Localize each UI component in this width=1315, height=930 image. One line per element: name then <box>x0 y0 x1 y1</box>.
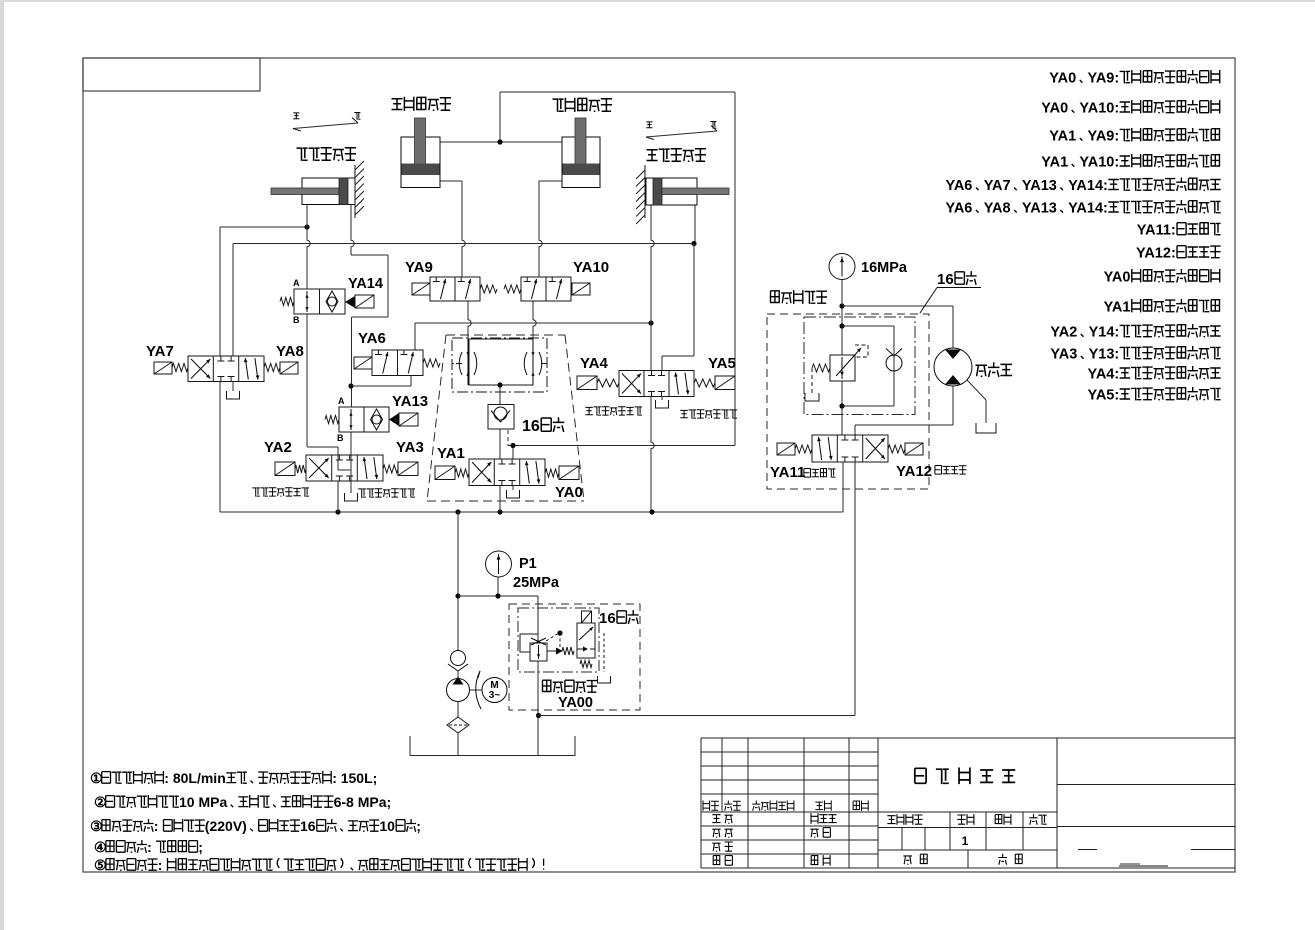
valve YA10 <box>504 277 590 301</box>
wire relief line <box>537 596 539 755</box>
annotation list <box>946 70 1221 404</box>
wire right-moving-cylinder right port <box>351 205 388 408</box>
label YA8 <box>276 343 304 360</box>
wire YA14 to YA2 valve <box>307 314 338 455</box>
svg-text:YA2: YA2 <box>264 439 292 456</box>
wire left-moving-cylinder right port <box>694 205 696 244</box>
label YA3 <box>396 439 424 456</box>
svg-text:YA2: YA2 <box>1050 325 1077 341</box>
label YA13 <box>392 393 428 410</box>
pump <box>447 671 470 702</box>
cylinder 右升降油缸 <box>562 118 600 188</box>
svg-text:P1: P1 <box>519 556 537 572</box>
cylinder 左移动油缸 <box>636 165 729 224</box>
svg-text:YA13: YA13 <box>1022 178 1057 194</box>
label 右移动油缸 <box>297 148 357 161</box>
svg-text:YA9:: YA9: <box>1088 129 1120 145</box>
svg-text:YA1: YA1 <box>1104 300 1131 316</box>
label YA10 <box>573 259 609 276</box>
notes text <box>90 770 544 873</box>
relief valve dashdot box <box>518 608 599 672</box>
svg-text:YA00: YA00 <box>558 695 593 711</box>
label YA0 <box>555 484 583 501</box>
label 单向减压阀 <box>771 290 828 304</box>
svg-text:YA10:: YA10: <box>1079 155 1119 171</box>
tank main <box>410 736 575 756</box>
label YA11 <box>770 464 805 481</box>
valve YA7 YA8 <box>154 356 298 382</box>
svg-text:②: ② <box>94 794 107 810</box>
label 右移动油缸左移 <box>252 488 309 497</box>
node relief tank junction <box>536 713 541 718</box>
label YA6 <box>358 330 386 347</box>
svg-text:: 150L;: : 150L; <box>332 770 377 786</box>
svg-text::: : <box>158 857 163 873</box>
svg-text:YA1: YA1 <box>1049 129 1076 145</box>
svg-text:YA6: YA6 <box>946 201 973 217</box>
wire supply bus <box>220 382 843 513</box>
relief pilot dashed lines <box>546 633 560 647</box>
wire YA4 B feed <box>662 244 694 371</box>
node YA6 bottom junction <box>348 383 353 388</box>
label 16通径 center <box>522 417 564 435</box>
wire P1 gauge link <box>458 577 538 599</box>
label YA2 <box>264 439 292 456</box>
label A port YA14 <box>293 278 300 288</box>
svg-text:3~: 3~ <box>489 690 501 701</box>
svg-text:25MPa: 25MPa <box>513 575 560 591</box>
node pilot line junction <box>648 320 653 325</box>
wire YA2 middle jog <box>338 455 351 470</box>
svg-text:YA14: YA14 <box>348 276 383 292</box>
label P1 <box>519 556 537 572</box>
unloading valve YA00 <box>577 611 611 683</box>
valve YA11 YA12 <box>777 435 923 462</box>
svg-text:;: ; <box>416 818 421 834</box>
svg-text:: 80L/min: : 80L/min <box>164 770 225 786</box>
reducing valve dashdot box <box>804 317 915 415</box>
cylinder 左升降油缸 <box>401 118 440 188</box>
wire bus2 <box>233 244 694 357</box>
svg-text:YA12: YA12 <box>896 463 932 480</box>
label B port YA14 <box>293 315 300 325</box>
check valve reducing branch <box>886 349 902 372</box>
svg-text:YA5: YA5 <box>708 355 736 372</box>
svg-text:16MPa: 16MPa <box>861 260 908 276</box>
label 右升降油缸 <box>553 98 613 112</box>
wire left-moving-cylinder left port <box>651 205 654 371</box>
svg-text:A: A <box>338 396 345 406</box>
valve YA2 YA3 <box>275 455 418 481</box>
filter <box>447 702 469 756</box>
svg-text:YA5:: YA5: <box>1088 388 1120 404</box>
svg-text:Y13:: Y13: <box>1089 347 1120 363</box>
tank YA4 valve <box>656 397 669 409</box>
svg-text:YA11:: YA11: <box>1137 223 1176 239</box>
gauge 16MPa <box>829 254 855 280</box>
svg-text:;: ; <box>198 839 203 855</box>
pressure reducing valve <box>805 345 868 401</box>
svg-text:④: ④ <box>94 839 107 855</box>
valve YA9 <box>412 277 497 301</box>
wire reducing valve to YA11 <box>839 381 844 435</box>
wire top bus <box>500 91 735 93</box>
flow divider valve <box>452 338 547 392</box>
svg-text:1: 1 <box>962 834 969 848</box>
motor 油马达 <box>934 348 972 386</box>
wire check branch <box>842 326 894 406</box>
svg-text:YA3: YA3 <box>396 439 424 456</box>
node supply bus junctions <box>335 509 654 514</box>
svg-text:YA0: YA0 <box>1104 270 1131 286</box>
label 右移动油缸右移 <box>358 489 415 498</box>
label YA4 <box>580 355 608 372</box>
svg-text:⑤: ⑤ <box>94 857 107 873</box>
check valve pilot operated <box>488 405 514 430</box>
check valve pump outlet <box>448 651 468 672</box>
flow divider dashed enclosure 16通径 <box>427 335 584 501</box>
label YA00 <box>558 695 593 711</box>
label 螺杆前进 <box>804 469 836 478</box>
tank YA7 valve <box>227 382 240 400</box>
reducing valve dashed box <box>767 314 929 489</box>
wire right-moving-cylinder left port <box>307 205 310 290</box>
svg-text:16: 16 <box>599 610 616 627</box>
svg-text:10: 10 <box>379 818 395 834</box>
svg-text:6-8 MPa;: 6-8 MPa; <box>334 794 392 810</box>
wire YA6 bottom link <box>351 376 411 386</box>
wire A YA9 to flow divider <box>468 301 471 385</box>
node pump riser junction <box>455 593 460 598</box>
svg-text:YA4: YA4 <box>580 355 608 372</box>
svg-text:YA6: YA6 <box>946 178 973 194</box>
arrow 左右 direction left <box>293 113 360 132</box>
svg-text:YA14:: YA14: <box>1068 178 1108 194</box>
wire motor bottom line <box>855 386 953 436</box>
wire YA13 through YA2 valve to tank <box>350 432 352 493</box>
wire B YA10 to flow divider <box>533 301 536 385</box>
svg-text:YA9:: YA9: <box>1088 71 1120 87</box>
wire motor drain <box>967 380 986 423</box>
svg-text:YA7: YA7 <box>984 178 1011 194</box>
relief valve main <box>520 634 574 661</box>
label 16通径 relief <box>599 610 639 627</box>
svg-text:B: B <box>293 315 300 325</box>
tank YA1 valve <box>507 486 520 498</box>
label 电磁溢流阀 <box>543 680 598 693</box>
node reducing valve nodes <box>839 303 844 328</box>
label 16通径 right leader <box>920 271 981 313</box>
svg-text:16: 16 <box>300 818 316 834</box>
label 油马达 <box>976 362 1013 377</box>
wire lift-cylinder top line <box>440 92 562 142</box>
label YA5 <box>708 355 736 372</box>
label YA12 <box>896 463 932 480</box>
node junction top <box>497 139 502 144</box>
node relief pilot <box>557 630 562 635</box>
title block <box>701 738 1235 868</box>
tank motor drain <box>976 423 996 433</box>
wire YA6 top line <box>415 323 651 350</box>
wire motor top line <box>842 306 953 349</box>
wire divider to check valve <box>499 385 501 405</box>
valve YA13 <box>325 407 418 432</box>
svg-text:YA10:: YA10: <box>1079 101 1119 117</box>
label 左移动油缸左移 <box>585 407 642 416</box>
label 左升降油缸 <box>392 97 452 111</box>
svg-text:10 MPa: 10 MPa <box>179 794 227 810</box>
label 25MPa <box>513 575 560 591</box>
svg-text:B: B <box>337 433 344 443</box>
wire 16MPa gauge line <box>841 280 843 356</box>
tank YA2 valve <box>345 493 358 501</box>
svg-text:YA0: YA0 <box>1049 71 1076 87</box>
svg-text:YA0: YA0 <box>555 484 583 501</box>
wire bus1 <box>220 227 307 356</box>
valve YA14 <box>280 289 374 314</box>
node bus1 junction <box>304 224 309 229</box>
label YA7 <box>146 343 174 360</box>
svg-text:YA0: YA0 <box>1041 101 1068 117</box>
wire A left cylinder to YA9 <box>440 181 465 277</box>
wire check valve to YA1 valve <box>499 429 501 459</box>
label B port YA13 <box>337 433 344 443</box>
label A port YA13 <box>338 396 345 406</box>
label YA9 <box>405 259 433 276</box>
gauge P1 <box>486 551 512 577</box>
svg-text:①: ① <box>90 770 103 786</box>
svg-text::: : <box>154 818 159 834</box>
svg-text:Y14:: Y14: <box>1089 325 1120 341</box>
wire pump riser <box>457 512 459 651</box>
valve YA1 YA0 <box>435 459 579 486</box>
wire YA1 valve P <box>499 486 501 512</box>
wire B right cylinder to YA10 <box>539 181 562 277</box>
label 左移动油缸右移 <box>680 410 737 419</box>
svg-text::: : <box>147 839 152 855</box>
svg-text:③: ③ <box>90 818 103 834</box>
valve YA6 <box>354 350 440 376</box>
label YA1 <box>437 445 465 462</box>
svg-text:YA9: YA9 <box>405 259 433 276</box>
node bus2 right junction <box>691 241 696 246</box>
svg-text:YA3: YA3 <box>1050 347 1077 363</box>
svg-text:YA11: YA11 <box>770 464 805 481</box>
svg-text:YA10: YA10 <box>573 259 609 276</box>
wire YA4 valve to supply bus <box>651 397 654 513</box>
label YA14 <box>348 276 383 292</box>
svg-text:16: 16 <box>522 418 540 435</box>
label 左移动油缸 <box>647 149 707 162</box>
svg-text:16: 16 <box>937 271 954 288</box>
svg-text:YA8: YA8 <box>276 343 304 360</box>
wire YA2 valve P <box>337 481 339 512</box>
node divider outlet <box>497 382 502 387</box>
svg-text:YA1: YA1 <box>1041 155 1068 171</box>
svg-text:YA13: YA13 <box>1022 201 1057 217</box>
svg-text:YA8: YA8 <box>984 201 1011 217</box>
wire return line <box>538 462 855 716</box>
svg-text:YA14:: YA14: <box>1068 201 1108 217</box>
wire trunk to pilot <box>513 92 735 446</box>
node pilot dot <box>510 443 515 448</box>
svg-text:YA13: YA13 <box>392 393 428 410</box>
svg-text:YA7: YA7 <box>146 343 174 360</box>
relief valve dashed box 电磁溢流阀 <box>509 604 640 710</box>
wire bus to YA11 valve <box>842 462 844 512</box>
wire pilot dashed <box>508 430 513 459</box>
svg-text:(220V): (220V) <box>205 818 247 834</box>
arrow 左右 direction right <box>646 122 717 140</box>
svg-text:A: A <box>293 278 300 288</box>
label 16MPa <box>861 260 908 276</box>
label 螺杆后退 <box>935 466 967 475</box>
svg-text:YA1: YA1 <box>437 445 465 462</box>
valve YA4 YA5 <box>577 371 735 397</box>
svg-text:YA6: YA6 <box>358 330 386 347</box>
svg-text:YA4:: YA4: <box>1088 367 1120 383</box>
cylinder 右移动油缸 <box>271 161 364 218</box>
svg-text:YA12:: YA12: <box>1136 246 1176 262</box>
motor M 3~ <box>470 671 508 709</box>
